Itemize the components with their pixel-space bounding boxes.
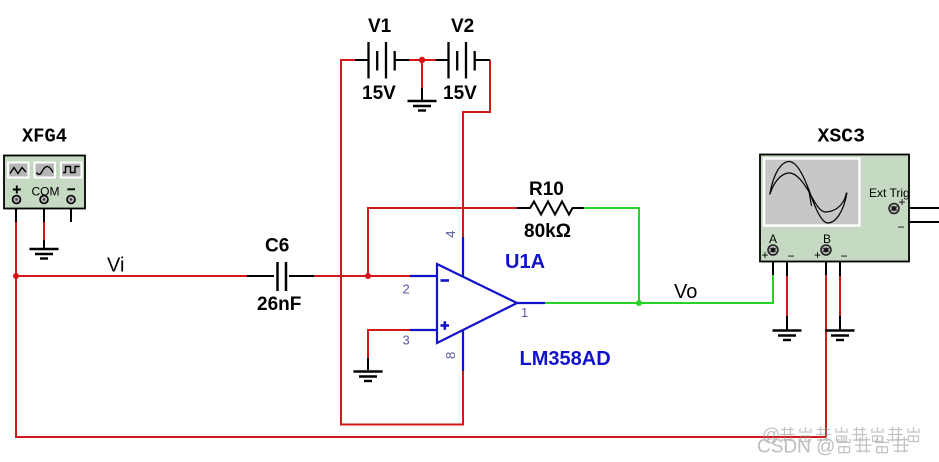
svg-text:15V: 15V	[362, 83, 396, 104]
svg-text:B: B	[823, 232, 831, 246]
svg-text:+: +	[814, 248, 821, 262]
svg-text:1: 1	[521, 305, 528, 320]
svg-text:V1: V1	[368, 16, 392, 37]
svg-text:8: 8	[443, 352, 458, 359]
svg-text:U1A: U1A	[505, 251, 545, 273]
svg-text:CSDN @: CSDN @	[757, 437, 835, 458]
svg-text:−: −	[788, 249, 795, 263]
svg-text:LM358AD: LM358AD	[520, 348, 611, 370]
svg-text:Vo: Vo	[674, 281, 697, 303]
svg-text:4: 4	[443, 231, 458, 238]
svg-text:80kΩ: 80kΩ	[524, 221, 571, 242]
svg-text:26nF: 26nF	[257, 294, 301, 315]
svg-text:3: 3	[403, 333, 410, 348]
svg-text:R10: R10	[529, 179, 564, 200]
svg-text:C6: C6	[265, 236, 289, 257]
svg-text:XSC3: XSC3	[818, 126, 866, 148]
svg-text:−: −	[841, 249, 848, 263]
svg-text:15V: 15V	[443, 83, 477, 104]
svg-text:V2: V2	[451, 16, 474, 37]
svg-text:2: 2	[403, 282, 410, 297]
svg-text:+: +	[899, 195, 906, 209]
svg-text:A: A	[769, 232, 777, 246]
svg-text:XFG4: XFG4	[22, 126, 67, 148]
svg-text:Vi: Vi	[107, 255, 124, 277]
svg-text:−: −	[898, 220, 905, 234]
